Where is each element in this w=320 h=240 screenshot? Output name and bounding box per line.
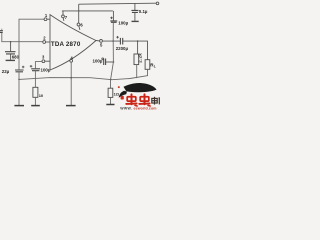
resistor R2 2.2k [134,53,143,65]
logo dianzi dark characters [152,97,160,105]
ground under 22u [14,105,24,107]
svg-text:eeworld.com: eeworld.com [134,107,157,111]
resistor R4 1ohm [108,88,120,97]
node rail 1ohm [110,79,112,81]
pin 6 [77,4,83,30]
ground under 680 [6,59,15,61]
wire 680 drop [10,42,12,52]
capacitor C2 680 [5,52,16,60]
wire 2.2k to rail [136,65,138,79]
svg-text:TDA 2870: TDA 2870 [51,41,81,48]
wire input net to pin 2 [2,33,43,42]
svg-text:22µ: 22µ [2,69,10,74]
wire pin3 to 100u feedback [35,62,42,69]
svg-text:WWW.: WWW. [120,106,132,110]
node A junction input/680 [10,41,12,43]
wire 1ohm to ground [110,97,112,104]
svg-text:10: 10 [39,93,44,98]
svg-text:100µ: 100µ [118,20,128,25]
junction rail [78,10,80,12]
ground rail bottom [19,76,148,80]
logo url row [120,106,156,110]
svg-text:100µ: 100µ [93,58,103,63]
wire rail to 1ohm [110,80,112,89]
wire pin1 to 22u [19,19,44,70]
svg-text:100µ: 100µ [41,68,51,73]
pins rail (7/6 bootstrap rail) [62,10,113,12]
wire 22u to ground [18,72,20,105]
resistor R1 10 [33,87,44,98]
pin 3 [42,54,50,62]
op-amp U1 TDA2870 triangle [50,15,96,70]
svg-text:0.1µ: 0.1µ [139,9,148,14]
pin 5 output [96,40,103,48]
resistor R3 RL load [145,60,156,70]
node rail 22u [18,79,20,81]
ground under pin 4 [66,105,76,107]
wire bootstrap to output [112,22,114,41]
zobel capacitor C8 100n [102,58,114,65]
wire R1 to ground [34,97,36,105]
wire 2.2k drop [137,41,139,54]
capacitor C6 0.1u [131,4,138,21]
terminal +V [156,2,159,5]
supply rail top [79,2,157,5]
node output junction [112,40,114,42]
wire RL to rail [147,69,149,75]
logo red fragment left [121,96,124,100]
node rail pin4 [70,77,72,79]
svg-text:L: L [154,65,156,69]
capacitor C-in (input coupling, left edge) [0,29,3,33]
svg-text:1Ω: 1Ω [114,91,120,96]
pin 7 [62,11,68,21]
wire 100u to resistor [34,71,36,88]
ground under 1ohm [106,104,114,106]
wire output net [102,40,120,42]
capacitor C5 100u bootstrap [110,17,117,23]
node zobel junction [113,61,115,63]
wire cap to RL corner [123,41,148,60]
capacitor C4 100u feedback [30,65,40,71]
node 2.2k junction [137,40,139,42]
wire bootstrap drop [112,11,114,21]
pin 4 [70,55,74,105]
logo swoosh black [118,83,157,98]
wire output down branch [111,41,114,79]
logo chongchong red characters [126,94,150,106]
ground under 0.1u [132,20,139,22]
svg-text:2.2k: 2.2k [138,53,143,63]
capacitor C3 22u [15,66,24,72]
pin 1 [44,13,50,21]
svg-text:2200µ: 2200µ [116,46,129,51]
ground under R1 [31,105,40,107]
pin 2 [43,35,50,43]
capacitor C7 2200u [116,36,122,45]
svg-text:680: 680 [12,54,20,59]
